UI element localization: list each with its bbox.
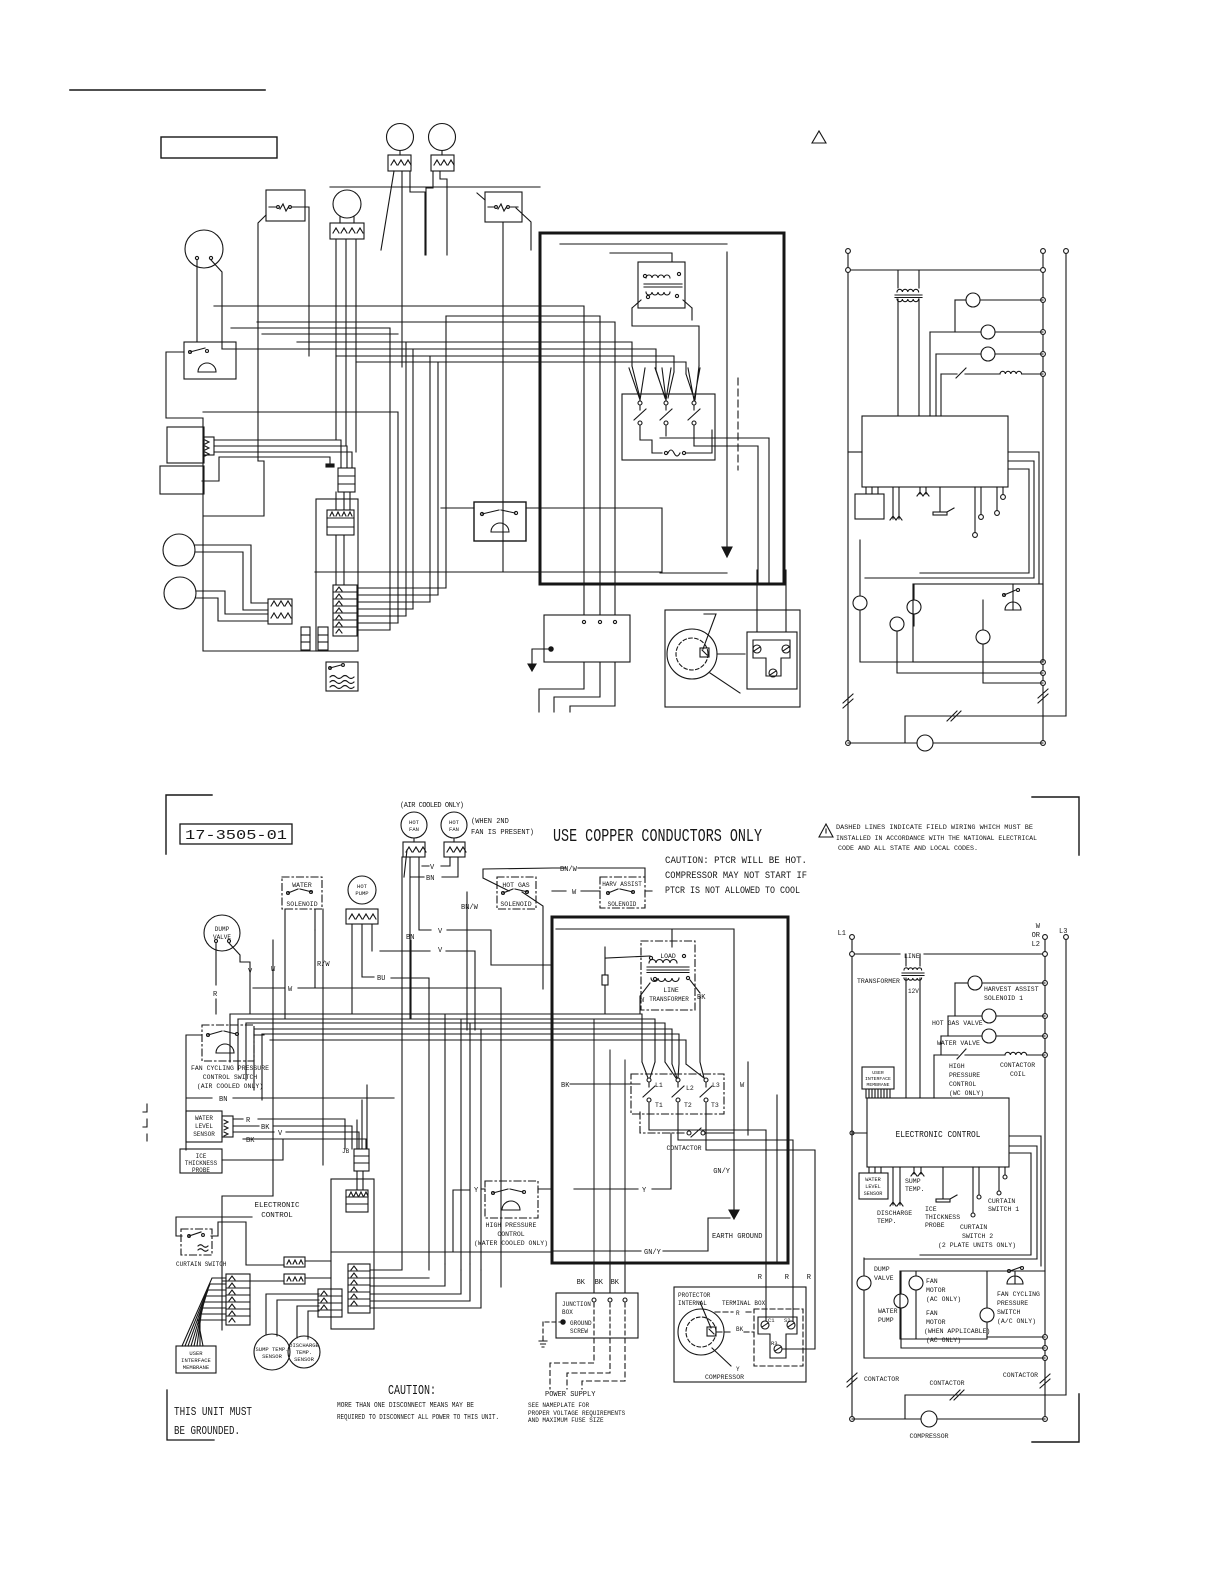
svg-text:BK: BK	[561, 1082, 570, 1090]
svg-text:(2 PLATE UNITS ONLY): (2 PLATE UNITS ONLY)	[938, 1242, 1016, 1249]
svg-text:17-3505-01: 17-3505-01	[185, 828, 287, 844]
svg-text:R: R	[736, 1310, 740, 1317]
svg-text:C1: C1	[768, 1317, 775, 1324]
svg-text:WATER: WATER	[865, 1177, 881, 1183]
svg-text:WATER: WATER	[878, 1308, 898, 1315]
svg-text:COIL: COIL	[1010, 1071, 1026, 1078]
svg-text:INTERFACE: INTERFACE	[865, 1076, 891, 1082]
svg-text:L3: L3	[712, 1082, 720, 1089]
svg-text:L1: L1	[838, 930, 846, 938]
svg-text:(AIR COOLED ONLY): (AIR COOLED ONLY)	[400, 802, 464, 810]
svg-text:ICE: ICE	[196, 1153, 207, 1160]
svg-text:THIS UNIT MUST: THIS UNIT MUST	[174, 1405, 252, 1419]
svg-text:BK: BK	[577, 1279, 586, 1287]
svg-text:MOTOR: MOTOR	[926, 1287, 946, 1294]
svg-text:T1: T1	[655, 1102, 663, 1109]
svg-text:CONTACTOR: CONTACTOR	[1000, 1062, 1035, 1069]
svg-text:INSTALLED IN ACCORDANCE WITH T: INSTALLED IN ACCORDANCE WITH THE NATIONA…	[836, 835, 1037, 842]
svg-text:TEMP.: TEMP.	[877, 1218, 897, 1225]
svg-text:R/W: R/W	[317, 961, 330, 969]
svg-text:CURTAIN: CURTAIN	[960, 1224, 987, 1231]
svg-text:PUMP: PUMP	[878, 1317, 894, 1324]
svg-text:PRESSURE: PRESSURE	[949, 1072, 980, 1079]
svg-text:L2: L2	[686, 1085, 694, 1092]
svg-text:BK: BK	[736, 1326, 744, 1333]
svg-text:COMPRESSOR: COMPRESSOR	[909, 1433, 948, 1440]
svg-text:CONTROL SWITCH: CONTROL SWITCH	[203, 1074, 258, 1081]
svg-text:ELECTRONIC: ELECTRONIC	[254, 1202, 300, 1210]
svg-text:POWER SUPPLY: POWER SUPPLY	[545, 1391, 596, 1399]
svg-text:(AIR COOLED ONLY): (AIR COOLED ONLY)	[197, 1083, 263, 1090]
svg-text:L1: L1	[655, 1082, 663, 1089]
svg-text:THICKNESS: THICKNESS	[185, 1160, 218, 1167]
svg-text:(WATER COOLED ONLY): (WATER COOLED ONLY)	[474, 1240, 548, 1247]
svg-text:SCREW: SCREW	[570, 1328, 588, 1335]
svg-text:ELECTRONIC CONTROL: ELECTRONIC CONTROL	[896, 1130, 981, 1140]
svg-text:ICE: ICE	[925, 1206, 937, 1213]
svg-text:SOLENOID: SOLENOID	[500, 901, 531, 908]
svg-text:COMPRESSOR: COMPRESSOR	[705, 1374, 744, 1381]
svg-text:SENSOR: SENSOR	[262, 1353, 283, 1360]
svg-text:SWITCH: SWITCH	[997, 1309, 1021, 1316]
svg-text:COMPRESSOR MAY NOT START IF: COMPRESSOR MAY NOT START IF	[665, 870, 807, 882]
svg-text:BN: BN	[219, 1096, 227, 1104]
svg-text:PROPER VOLTAGE REQUIREMENTS: PROPER VOLTAGE REQUIREMENTS	[528, 1410, 626, 1417]
svg-text:MOTOR: MOTOR	[926, 1319, 946, 1326]
svg-text:BN: BN	[426, 875, 434, 883]
svg-text:BOX: BOX	[562, 1309, 573, 1316]
svg-text:SUMP: SUMP	[905, 1178, 921, 1185]
svg-text:BN: BN	[406, 934, 414, 942]
svg-text:CURTAIN: CURTAIN	[988, 1198, 1015, 1205]
svg-text:CAUTION: PTCR WILL BE HOT.: CAUTION: PTCR WILL BE HOT.	[665, 855, 807, 867]
svg-text:VALVE: VALVE	[874, 1275, 894, 1282]
svg-text:SWITCH 1: SWITCH 1	[988, 1206, 1019, 1213]
svg-text:PROTECTOR: PROTECTOR	[678, 1292, 711, 1299]
svg-text:HOT: HOT	[449, 819, 460, 826]
svg-text:S2: S2	[784, 1317, 791, 1324]
svg-text:HOT GAS: HOT GAS	[502, 882, 529, 889]
svg-text:WATER: WATER	[292, 882, 312, 889]
svg-text:JB: JB	[342, 1148, 350, 1155]
svg-text:OR: OR	[1032, 932, 1041, 940]
svg-text:CONTROL: CONTROL	[261, 1212, 293, 1220]
svg-text:SENSOR: SENSOR	[294, 1356, 315, 1363]
svg-text:(WC ONLY): (WC ONLY)	[949, 1090, 984, 1097]
svg-text:12V: 12V	[908, 988, 919, 995]
svg-text:DISCHARGE: DISCHARGE	[289, 1342, 319, 1349]
svg-text:CONTACTOR: CONTACTOR	[1003, 1372, 1038, 1379]
svg-text:HOT GAS VALVE: HOT GAS VALVE	[932, 1020, 983, 1027]
svg-text:CONTACTOR: CONTACTOR	[929, 1380, 964, 1387]
svg-text:REQUIRED TO DISCONNECT ALL POW: REQUIRED TO DISCONNECT ALL POWER TO THIS…	[337, 1414, 499, 1422]
svg-text:L2: L2	[1032, 941, 1040, 949]
svg-text:BN/W: BN/W	[461, 904, 479, 912]
svg-text:INTERFACE: INTERFACE	[181, 1357, 211, 1364]
svg-text:AND MAXIMUM FUSE SIZE: AND MAXIMUM FUSE SIZE	[528, 1417, 604, 1424]
svg-text:CONTACTOR: CONTACTOR	[864, 1376, 899, 1383]
svg-text:INTERNAL: INTERNAL	[678, 1300, 707, 1307]
svg-text:FAN: FAN	[409, 826, 419, 833]
svg-text:FAN: FAN	[926, 1278, 938, 1285]
svg-text:HOT: HOT	[409, 819, 420, 826]
svg-text:(WHEN APPLICABLE): (WHEN APPLICABLE)	[924, 1328, 990, 1335]
svg-text:BK: BK	[595, 1279, 604, 1287]
svg-text:CONTROL: CONTROL	[497, 1231, 524, 1238]
svg-text:USE COPPER CONDUCTORS ONLY: USE COPPER CONDUCTORS ONLY	[553, 827, 762, 847]
svg-text:THICKNESS: THICKNESS	[925, 1214, 960, 1221]
svg-text:TRANSFORMER: TRANSFORMER	[649, 996, 689, 1003]
svg-text:DASHED LINES INDICATE FIELD WI: DASHED LINES INDICATE FIELD WIRING WHICH…	[836, 824, 1033, 831]
svg-text:LEVEL: LEVEL	[865, 1184, 881, 1190]
svg-text:SWITCH 2: SWITCH 2	[962, 1233, 993, 1240]
svg-text:FAN: FAN	[449, 826, 459, 833]
svg-text:LINE: LINE	[904, 953, 920, 960]
svg-text:BE GROUNDED.: BE GROUNDED.	[174, 1424, 240, 1438]
svg-text:PUMP: PUMP	[355, 890, 368, 897]
svg-text:Y: Y	[736, 1366, 740, 1373]
svg-text:BK: BK	[697, 994, 706, 1002]
svg-text:L3: L3	[1059, 928, 1067, 936]
svg-text:FAN CYCLING PRESSURE: FAN CYCLING PRESSURE	[191, 1065, 269, 1072]
svg-text:BK: BK	[261, 1124, 270, 1132]
svg-text:HARVEST ASSIST: HARVEST ASSIST	[984, 986, 1039, 993]
svg-text:WATER: WATER	[195, 1115, 213, 1122]
svg-text:SENSOR: SENSOR	[193, 1131, 215, 1138]
svg-text:HARV ASSIST: HARV ASSIST	[602, 881, 642, 888]
svg-text:LEVEL: LEVEL	[195, 1123, 213, 1130]
svg-text:CAUTION:: CAUTION:	[388, 1383, 436, 1399]
svg-text:(A/C ONLY): (A/C ONLY)	[997, 1318, 1036, 1325]
svg-text:FAN CYCLING: FAN CYCLING	[997, 1291, 1040, 1298]
svg-text:HIGH: HIGH	[949, 1063, 965, 1070]
svg-text:SEE NAMEPLATE FOR: SEE NAMEPLATE FOR	[528, 1402, 590, 1409]
svg-text:GN/Y: GN/Y	[713, 1168, 731, 1176]
svg-text:DUMP: DUMP	[215, 926, 230, 933]
svg-text:(WHEN 2ND: (WHEN 2ND	[471, 818, 509, 826]
svg-text:R3: R3	[771, 1340, 778, 1347]
svg-text:CONTROL: CONTROL	[949, 1081, 976, 1088]
svg-text:BK: BK	[246, 1137, 255, 1145]
svg-text:CONTACTOR: CONTACTOR	[666, 1145, 701, 1152]
svg-text:MEMBRANE: MEMBRANE	[866, 1082, 889, 1088]
svg-text:SOLENOID: SOLENOID	[608, 901, 637, 908]
svg-text:DISCHARGE: DISCHARGE	[877, 1210, 912, 1217]
svg-text:(AC ONLY): (AC ONLY)	[926, 1337, 961, 1344]
svg-text:(AC ONLY): (AC ONLY)	[926, 1296, 961, 1303]
svg-text:TRANSFORMER: TRANSFORMER	[857, 978, 900, 985]
svg-text:USER: USER	[872, 1070, 884, 1076]
svg-text:PTCR IS NOT ALLOWED TO COOL: PTCR IS NOT ALLOWED TO COOL	[665, 885, 800, 897]
svg-text:PRESSURE: PRESSURE	[997, 1300, 1028, 1307]
svg-text:PROBE: PROBE	[192, 1167, 210, 1174]
svg-text:WATER VALVE: WATER VALVE	[937, 1040, 980, 1047]
svg-text:TERMINAL BOX: TERMINAL BOX	[722, 1300, 766, 1307]
svg-text:EARTH GROUND: EARTH GROUND	[712, 1233, 762, 1241]
svg-text:HOT: HOT	[357, 883, 368, 890]
svg-text:GROUND: GROUND	[570, 1320, 592, 1327]
svg-text:SOLENOID 1: SOLENOID 1	[984, 995, 1023, 1002]
svg-text:SENSOR: SENSOR	[864, 1191, 883, 1197]
svg-text:HIGH PRESSURE: HIGH PRESSURE	[486, 1222, 537, 1229]
svg-text:BK: BK	[611, 1279, 620, 1287]
svg-text:FAN: FAN	[926, 1310, 938, 1317]
svg-text:VALVE: VALVE	[213, 934, 231, 941]
svg-text:LINE: LINE	[663, 987, 679, 994]
svg-text:DUMP: DUMP	[874, 1266, 890, 1273]
svg-text:SOLENOID: SOLENOID	[286, 901, 317, 908]
svg-text:T3: T3	[711, 1102, 719, 1109]
svg-text:PROBE: PROBE	[925, 1222, 945, 1229]
svg-text:FAN IS PRESENT): FAN IS PRESENT)	[471, 829, 534, 837]
svg-text:SUMP TEMP.: SUMP TEMP.	[255, 1346, 288, 1353]
svg-text:CURTAIN SWITCH: CURTAIN SWITCH	[176, 1261, 227, 1268]
svg-text:GN/Y: GN/Y	[644, 1249, 662, 1257]
svg-text:BU: BU	[377, 975, 385, 983]
svg-text:MEMBRANE: MEMBRANE	[183, 1364, 210, 1371]
svg-text:TEMP.: TEMP.	[296, 1349, 313, 1356]
svg-text:CODE AND ALL STATE AND LOCAL C: CODE AND ALL STATE AND LOCAL CODES.	[838, 845, 978, 852]
svg-text:LOAD: LOAD	[660, 953, 676, 960]
svg-text:BN/W: BN/W	[560, 866, 578, 874]
svg-text:T2: T2	[684, 1102, 692, 1109]
svg-text:JUNCTION: JUNCTION	[562, 1301, 591, 1308]
svg-text:MORE THAN ONE DISCONNECT MEANS: MORE THAN ONE DISCONNECT MEANS MAY BE	[337, 1402, 474, 1410]
svg-text:TEMP.: TEMP.	[905, 1186, 925, 1193]
svg-text:USER: USER	[189, 1350, 203, 1357]
